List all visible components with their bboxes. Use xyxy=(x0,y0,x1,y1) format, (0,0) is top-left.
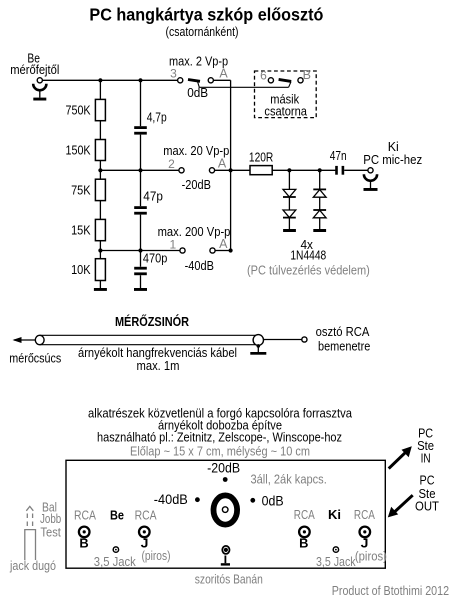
svg-text:3: 3 xyxy=(170,67,177,81)
node tap2 resistor xyxy=(98,168,102,172)
switch contact A row2 xyxy=(209,157,226,173)
svg-text:használható pl.: Zeitnitz, Z: használható pl.: Zeitnitz, Zelscope-, Wi… xyxy=(97,431,342,445)
svg-text:47n: 47n xyxy=(330,148,347,163)
svg-text:PC mic-hez: PC mic-hez xyxy=(363,152,422,167)
svg-text:75K: 75K xyxy=(71,182,91,197)
svg-text:0dB: 0dB xyxy=(262,493,284,509)
wire bus vertical xyxy=(230,80,232,250)
switch contact A row3 xyxy=(208,67,228,83)
svg-text:osztó RCA: osztó RCA xyxy=(316,324,370,339)
svg-text:B: B xyxy=(299,537,308,551)
wire C4 to output xyxy=(344,169,368,171)
svg-text:csatorna: csatorna xyxy=(264,104,307,119)
ground resistor ladder xyxy=(94,288,107,291)
diode D4 xyxy=(313,210,326,218)
connector RCA Be J xyxy=(139,527,150,538)
svg-text:3,5 Jack: 3,5 Jack xyxy=(316,555,356,569)
label osztó RCA bemenetre xyxy=(316,324,371,354)
node bus tap2 xyxy=(229,168,233,172)
ground output xyxy=(364,188,378,191)
svg-text:Test: Test xyxy=(40,526,61,540)
wire tap1 xyxy=(100,250,179,252)
jack plug body xyxy=(25,530,36,560)
svg-text:bemenetre: bemenetre xyxy=(318,338,370,353)
cable end left xyxy=(35,335,44,344)
connector 3,5 jack left xyxy=(113,547,118,552)
svg-text:Jobb: Jobb xyxy=(40,512,61,526)
svg-text:OUT: OUT xyxy=(415,498,439,513)
ground input xyxy=(33,98,46,101)
label RCA Be RCA xyxy=(74,508,157,522)
connector J1 input RCA xyxy=(33,78,46,98)
connector RCA Ki B xyxy=(299,527,310,538)
jack plug tip xyxy=(26,506,33,510)
switch contact 1 xyxy=(169,237,185,253)
wire diode chain B xyxy=(319,170,321,229)
svg-text:15K: 15K xyxy=(71,222,91,237)
ground cable shield xyxy=(250,352,266,355)
ground diode chain B xyxy=(313,229,326,232)
svg-text:2: 2 xyxy=(168,157,175,171)
wire tap2 xyxy=(100,169,178,171)
wire shield to ground xyxy=(257,346,259,352)
svg-text:PC hangkártya szkóp előosztó: PC hangkártya szkóp előosztó xyxy=(89,4,323,24)
svg-text:A: A xyxy=(219,237,228,251)
connector RCA Be B xyxy=(79,527,90,538)
switch contact B xyxy=(298,68,311,83)
banana ground mark xyxy=(221,556,230,566)
svg-text:-20dB: -20dB xyxy=(207,460,240,476)
svg-text:750K: 750K xyxy=(66,102,91,117)
ground diode chain A xyxy=(283,229,296,232)
svg-text:3áll, 2ák kapcs.: 3áll, 2ák kapcs. xyxy=(251,472,327,486)
svg-text:3,5 Jack: 3,5 Jack xyxy=(94,555,137,569)
resistor R6 120R xyxy=(249,150,273,175)
node tap2 capacitor xyxy=(138,168,142,172)
label árnyékolt hangfrekvenciás kábel xyxy=(78,346,237,373)
svg-text:RCA: RCA xyxy=(135,509,158,523)
svg-text:470p: 470p xyxy=(143,251,167,266)
svg-text:(piros): (piros) xyxy=(355,550,387,564)
input label Be mérőfejtől xyxy=(10,52,59,77)
svg-text:(piros): (piros) xyxy=(142,549,171,563)
connector RCA Ki J xyxy=(360,527,371,538)
cable end right xyxy=(253,335,263,346)
svg-text:-20dB: -20dB xyxy=(182,177,211,192)
svg-text:RCA: RCA xyxy=(354,508,376,522)
wire 120R to C4 xyxy=(272,169,336,171)
svg-text:150K: 150K xyxy=(66,142,91,157)
diode D2 xyxy=(283,210,296,218)
dot position -20dB xyxy=(223,477,228,482)
svg-text:RCA: RCA xyxy=(74,509,97,523)
dashed box másik csatorna xyxy=(255,71,317,118)
label PC Ste IN xyxy=(417,426,434,466)
svg-text:J: J xyxy=(361,537,369,551)
resistor R1 750K xyxy=(95,99,105,120)
svg-text:mérőfejtől: mérőfejtől xyxy=(10,63,59,77)
svg-text:B: B xyxy=(79,537,88,551)
svg-text:A: A xyxy=(218,157,227,171)
jack plug rings dashed xyxy=(27,514,32,529)
svg-text:IN: IN xyxy=(421,450,431,465)
svg-text:-40dB: -40dB xyxy=(154,491,188,507)
connector J2 output RCA xyxy=(364,168,377,188)
resistor R2 150K xyxy=(95,140,105,161)
svg-text:-40dB: -40dB xyxy=(185,258,214,273)
svg-text:47p: 47p xyxy=(143,189,163,204)
capacitor C2 47p xyxy=(134,189,163,215)
wire A1 to bus xyxy=(215,250,231,252)
label 4x 1N4448 xyxy=(290,237,326,263)
svg-text:árnyékolt hangfrekvenciás kábe: árnyékolt hangfrekvenciás kábel xyxy=(78,346,237,360)
node shield ground xyxy=(257,344,261,348)
capacitor C3 470p xyxy=(134,251,167,276)
svg-text:(PC túlvezérlés védelem): (PC túlvezérlés védelem) xyxy=(247,263,370,278)
diode D1 xyxy=(283,189,296,197)
node tap1 resistor xyxy=(98,248,102,252)
svg-text:(csatornánként): (csatornánként) xyxy=(166,25,239,39)
svg-text:jack dugó: jack dugó xyxy=(9,559,56,573)
svg-text:Be: Be xyxy=(110,508,124,522)
node bus tap1 xyxy=(229,248,233,252)
wire input to contact 3 xyxy=(42,79,177,81)
wire resistor column segments xyxy=(99,80,101,288)
svg-text:Előlap ~ 15 x 7 cm, mélység ~: Előlap ~ 15 x 7 cm, mélység ~ 10 cm xyxy=(130,445,310,459)
svg-text:max. 1m: max. 1m xyxy=(137,359,180,373)
wire bus to 120R xyxy=(231,169,250,171)
switch contact A row1 xyxy=(210,237,228,253)
dot position -40dB xyxy=(195,497,200,502)
wire link to other channel xyxy=(199,86,288,88)
svg-text:MÉRŐZSINÓR: MÉRŐZSINÓR xyxy=(115,314,189,329)
connector 3,5 jack right xyxy=(333,547,338,552)
node tap1 capacitor xyxy=(138,248,142,252)
node diode chain A xyxy=(287,168,291,172)
svg-text:B: B xyxy=(303,68,311,82)
label PC Ste OUT xyxy=(415,473,439,514)
svg-text:6: 6 xyxy=(260,69,267,83)
label RCA Ki RCA xyxy=(294,508,376,522)
svg-text:1: 1 xyxy=(169,237,176,251)
svg-text:mérőcsúcs: mérőcsúcs xyxy=(9,352,61,366)
node top of resistor ladder xyxy=(98,78,102,82)
connector osztó RCA xyxy=(302,337,307,342)
label B J right xyxy=(299,537,368,551)
capacitor C1 4,7p xyxy=(134,110,167,135)
wire cable to RCA out xyxy=(264,339,302,341)
svg-text:RCA: RCA xyxy=(294,508,316,522)
arrow to PC Ste IN xyxy=(389,446,412,468)
resistor R4 15K xyxy=(95,219,105,240)
svg-text:10K: 10K xyxy=(71,262,91,277)
switch contact 2 xyxy=(168,157,184,173)
cable shield tube xyxy=(40,335,259,344)
svg-text:1N4448: 1N4448 xyxy=(290,248,326,263)
node top of capacitor column xyxy=(138,78,142,82)
wire A2 to bus xyxy=(215,169,231,171)
switch wiper position 6 xyxy=(279,79,292,87)
svg-text:Product of Btothimi 2012: Product of Btothimi 2012 xyxy=(332,583,449,598)
wire capacitor column segments xyxy=(140,80,142,288)
svg-text:A: A xyxy=(219,67,228,81)
ground capacitor column xyxy=(134,288,147,291)
label B J left xyxy=(79,537,148,551)
rotary switch knob xyxy=(214,495,238,524)
svg-text:120R: 120R xyxy=(249,150,273,165)
wire A3 to bus xyxy=(213,79,230,81)
wire diode chain A xyxy=(288,170,290,229)
capacitor C4 47n xyxy=(330,148,347,175)
switch wiper position 3 xyxy=(188,80,200,88)
resistor R3 75K xyxy=(95,179,105,200)
label másik csatorna xyxy=(264,92,307,119)
arrow from PC Ste OUT xyxy=(388,495,413,517)
switch contact 3 xyxy=(170,67,183,83)
node diode chain B xyxy=(318,168,322,172)
switch contact 6 xyxy=(260,69,273,83)
svg-text:szoritós Banán: szoritós Banán xyxy=(195,572,263,587)
label Bal Jobb Test xyxy=(40,500,61,539)
banana jack xyxy=(222,546,229,554)
svg-text:Ki: Ki xyxy=(328,508,341,522)
dot position 0dB xyxy=(250,498,255,503)
resistor R5 10K xyxy=(95,259,105,281)
label Ki PC mic-hez xyxy=(363,139,422,167)
probe tip arrow xyxy=(13,337,36,343)
svg-text:4,7p: 4,7p xyxy=(147,110,167,125)
diode D3 xyxy=(313,189,326,197)
front panel box xyxy=(66,460,385,568)
